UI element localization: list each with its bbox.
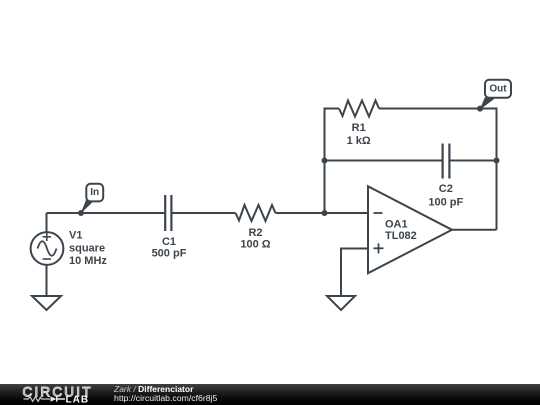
svg-text:In: In <box>90 187 99 198</box>
svg-text:TL082: TL082 <box>385 230 417 242</box>
svg-text:10 MHz: 10 MHz <box>69 255 107 267</box>
svg-text:R1: R1 <box>352 122 366 134</box>
svg-text:100 Ω: 100 Ω <box>240 239 270 251</box>
svg-text:100 pF: 100 pF <box>428 196 463 208</box>
svg-text:C1: C1 <box>162 236 176 248</box>
svg-text:500 pF: 500 pF <box>152 248 187 260</box>
svg-text:R2: R2 <box>248 227 262 239</box>
svg-text:square: square <box>69 242 105 254</box>
svg-text:1 kΩ: 1 kΩ <box>347 135 371 147</box>
svg-text:V1: V1 <box>69 230 82 242</box>
svg-text:OA1: OA1 <box>385 219 408 231</box>
svg-text:Out: Out <box>489 83 507 94</box>
svg-text:LAB: LAB <box>66 394 90 405</box>
svg-text:C2: C2 <box>439 183 453 195</box>
